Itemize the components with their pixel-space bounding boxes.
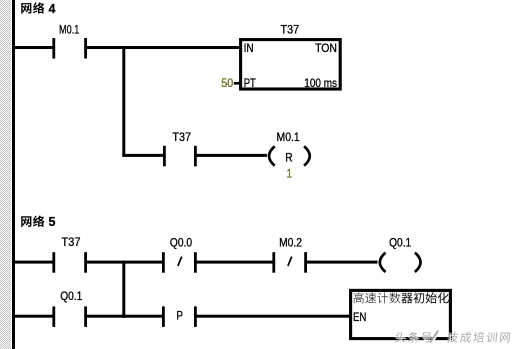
wire: branch corner to T37 contact (network 4 rung 2) bbox=[122, 154, 163, 157]
svg-text:T37: T37 bbox=[172, 132, 191, 144]
svg-text:EN: EN bbox=[353, 310, 366, 324]
network 4 title "网络 4" bbox=[21, 2, 55, 16]
left power rail bbox=[12, 0, 15, 349]
wire: rail to Q0.1 contact (network 5 rung 2) bbox=[14, 315, 53, 318]
watermark 头条号/技成培训网 bbox=[396, 333, 512, 344]
svg-text:M0.1: M0.1 bbox=[59, 25, 79, 37]
svg-text:Q0.0: Q0.0 bbox=[170, 237, 192, 249]
svg-text:M0.1: M0.1 bbox=[277, 132, 300, 144]
contact T37 (normally open) bbox=[163, 146, 197, 167]
svg-text:TON: TON bbox=[315, 41, 337, 55]
coil M0.1 (R = reset) bbox=[269, 146, 310, 165]
svg-text:50: 50 bbox=[221, 76, 233, 90]
svg-text:PT: PT bbox=[244, 76, 257, 90]
wire: M0.1 to timer box IN bbox=[86, 46, 240, 49]
wire: stub 50 to PT pin bbox=[234, 82, 240, 85]
contact M0.2 (normally closed) bbox=[272, 252, 307, 273]
svg-text:Q0.1: Q0.1 bbox=[389, 237, 411, 249]
wire: P to subroutine box EN bbox=[196, 315, 350, 318]
svg-text:1: 1 bbox=[287, 167, 293, 181]
svg-text:Q0.1: Q0.1 bbox=[60, 291, 82, 303]
junction: branch T at x=123 down to rung 2 bbox=[122, 46, 125, 157]
contact P (positive edge) bbox=[162, 306, 197, 327]
wire: Q0.1 to P contact bbox=[86, 315, 163, 318]
coil Q0.1 (output) bbox=[380, 253, 421, 272]
contact T37 (normally open) bbox=[52, 252, 87, 273]
svg-text:IN: IN bbox=[244, 41, 254, 55]
timer box T37 TON bbox=[241, 40, 341, 89]
contact Q0.1 (normally open) bbox=[52, 306, 87, 327]
svg-text:5: 5 bbox=[49, 215, 56, 229]
wire: rail to T37 contact (network 5 rung 1) bbox=[14, 261, 53, 264]
box title 高速计数器初始化 bbox=[353, 292, 449, 303]
junction: branch T at x=123 down to rung 2 bbox=[122, 261, 125, 318]
svg-text:R: R bbox=[285, 151, 293, 165]
svg-text:4: 4 bbox=[49, 2, 56, 16]
wire: Q0.0 to M0.2 contact bbox=[196, 261, 273, 264]
svg-text:T37: T37 bbox=[62, 237, 81, 249]
svg-text:100 ms: 100 ms bbox=[304, 76, 337, 90]
svg-text:M0.2: M0.2 bbox=[279, 237, 302, 249]
subroutine box 高速计数器初始化 bbox=[351, 290, 451, 338]
wire: M0.2 to Q0.1 coil bbox=[306, 261, 378, 264]
wire: T37 to Q0.0 contact bbox=[86, 261, 163, 264]
svg-text:P: P bbox=[176, 309, 183, 323]
wire: T37 to R coil bbox=[196, 154, 267, 157]
contact Q0.0 (normally closed) bbox=[162, 252, 197, 273]
network 5 title "网络 5" bbox=[21, 215, 55, 229]
svg-text:T37: T37 bbox=[281, 25, 300, 37]
wire: rail to M0.1 contact (network 4 rung 1) bbox=[14, 46, 53, 49]
contact M0.1 (normally open) bbox=[52, 38, 87, 59]
